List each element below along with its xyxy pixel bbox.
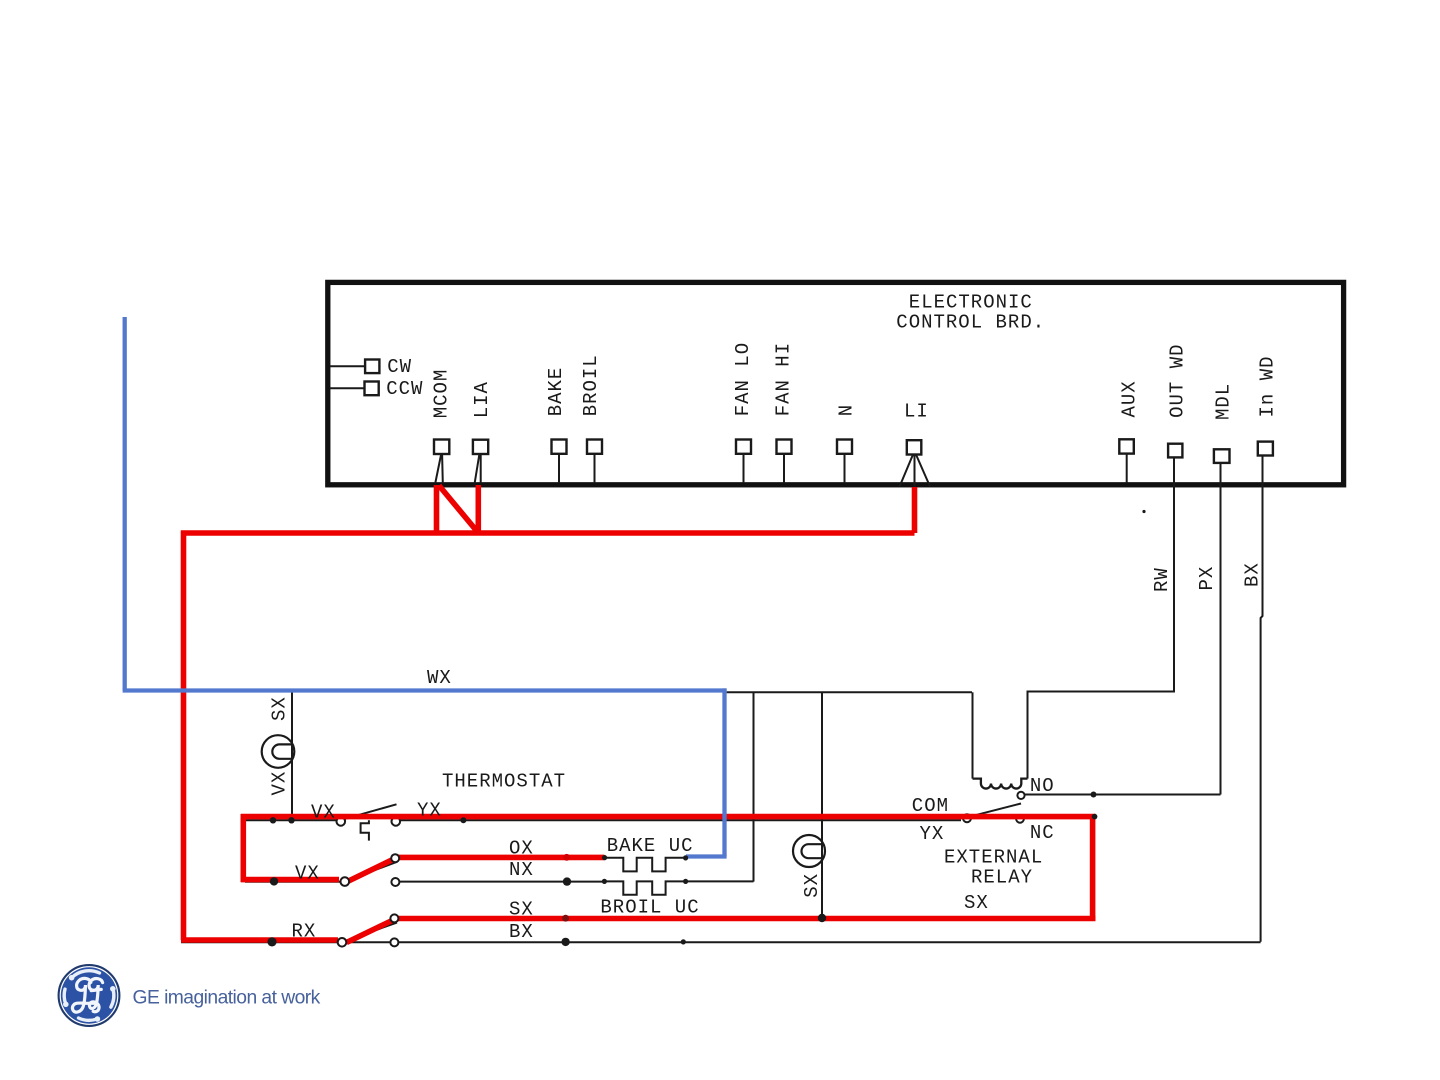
svg-text:MDL: MDL xyxy=(1213,383,1235,420)
terminal BAKE square xyxy=(552,440,567,454)
svg-text:SX: SX xyxy=(509,899,534,921)
wire PX net: MDL down to NO line xyxy=(1220,463,1222,795)
node NO line junction xyxy=(1091,792,1097,798)
terminal In WD square xyxy=(1258,442,1273,456)
wire vertical to NX xyxy=(753,692,755,881)
contact circles under red xyxy=(337,814,1024,826)
red wire row2 left (VX) xyxy=(241,877,339,883)
red switch S3 blade xyxy=(347,918,397,942)
wire SX row line under red xyxy=(399,918,1093,920)
terminal CCW square xyxy=(365,382,379,396)
svg-text:GE imagination at work: GE imagination at work xyxy=(133,988,321,1009)
wire thermostat row1 YX line xyxy=(245,819,961,821)
svg-text:RW: RW xyxy=(1151,567,1173,592)
svg-text:VX: VX xyxy=(295,863,320,885)
svg-text:BAKE UC: BAKE UC xyxy=(607,835,694,857)
svg-text:LI: LI xyxy=(904,400,929,422)
terminal CW square xyxy=(365,360,379,374)
svg-text:EXTERNAL: EXTERNAL xyxy=(944,847,1043,869)
node red box corner xyxy=(1092,814,1098,820)
wire MCOM leads xyxy=(435,454,443,484)
terminal LI square xyxy=(907,440,922,454)
terminal OUT WD square xyxy=(1168,444,1182,458)
node BX small xyxy=(681,939,686,944)
svg-text:NC: NC xyxy=(1030,822,1055,844)
node OX red junction xyxy=(563,854,570,861)
blue wire horizontal WX xyxy=(123,688,727,692)
electronic control board box xyxy=(328,282,1344,484)
node stray speck xyxy=(1142,510,1145,513)
node BAKE UC left xyxy=(602,855,607,860)
contact S1 left xyxy=(337,817,346,826)
wire LI fork leads xyxy=(900,455,930,488)
terminal N square xyxy=(837,440,852,454)
contact S1 right xyxy=(392,817,401,826)
svg-text:SX: SX xyxy=(801,873,823,898)
red wire left vertical xyxy=(181,531,187,941)
contact S2 NX throw xyxy=(391,878,399,886)
red wire OX row xyxy=(395,855,604,861)
terminal AUX square xyxy=(1119,439,1134,453)
red wire LIA drop xyxy=(475,485,481,536)
wire RW net: OUT WD down, left, coil right leg xyxy=(1028,457,1175,778)
wire FAN HI lead xyxy=(783,454,785,483)
contact S3 SX throw xyxy=(390,914,398,922)
wire WX horizontal xyxy=(727,691,972,693)
svg-text:BROIL: BROIL xyxy=(580,354,602,416)
terminal BROIL square xyxy=(587,440,602,454)
wire CW stub xyxy=(330,365,365,367)
heater BROIL UC element xyxy=(604,881,685,894)
svg-text:In WD: In WD xyxy=(1257,355,1279,417)
node row1 dot b (lamp drop) xyxy=(288,817,294,823)
BLUE wire overlay xyxy=(123,317,727,857)
svg-text:VX: VX xyxy=(269,771,291,796)
wire NO contact line to PX xyxy=(1025,794,1221,796)
contact relay COM xyxy=(963,814,971,822)
blue wire vertical left xyxy=(123,317,127,691)
svg-text:N: N xyxy=(836,404,858,416)
blue wire vertical down xyxy=(722,688,726,856)
wire NX line xyxy=(400,880,754,882)
thermostat S1 actuator bracket xyxy=(361,820,369,840)
svg-text:ELECTRONIC: ELECTRONIC xyxy=(909,292,1033,314)
red junction dots xyxy=(562,854,570,922)
wire vertical through SX lamp xyxy=(821,692,823,917)
terminal FAN HI square xyxy=(777,440,792,454)
RED wire overlays xyxy=(181,485,1096,943)
svg-text:VX: VX xyxy=(311,802,336,824)
switch S1 blade (thermostat VX-YX) xyxy=(345,804,397,819)
wire SX lamp drop: left lamp vertical xyxy=(291,691,293,821)
svg-text:YX: YX xyxy=(417,800,442,822)
svg-text:SX: SX xyxy=(269,696,291,721)
wire BX bottom line xyxy=(181,941,1261,943)
svg-text:LIA: LIA xyxy=(471,381,493,418)
relay coil L1 xyxy=(973,779,1028,789)
red wire MCOM drop xyxy=(434,485,440,536)
wire CCW stub xyxy=(330,387,364,389)
svg-text:YX: YX xyxy=(920,823,945,845)
wire BAKE lead xyxy=(558,454,560,483)
switch S2 blade black (VX to OX/NX) xyxy=(347,862,398,881)
node SX dark junction xyxy=(562,915,569,922)
wire AUX lead xyxy=(1126,454,1128,483)
svg-text:BAKE: BAKE xyxy=(545,367,567,417)
contact S3 common xyxy=(338,938,347,947)
svg-text:CW: CW xyxy=(387,356,412,378)
red wire top horizontal (L1 run) xyxy=(181,530,915,536)
contact S2 common xyxy=(341,877,350,886)
red highlight box right xyxy=(1090,814,1096,921)
heater BAKE UC element xyxy=(604,858,685,872)
node row2 dot xyxy=(270,877,278,885)
node BROIL UC right xyxy=(683,879,688,884)
wire FAN LO lead xyxy=(743,454,745,483)
wire BROIL lead xyxy=(594,454,596,483)
svg-text:AUX: AUX xyxy=(1119,380,1141,417)
svg-text:BROIL UC: BROIL UC xyxy=(600,897,699,919)
red wire SX row xyxy=(394,916,1095,922)
svg-text:CCW: CCW xyxy=(386,378,423,400)
svg-text:BX: BX xyxy=(509,921,534,943)
contact S3 BX throw xyxy=(390,938,398,946)
svg-text:FAN HI: FAN HI xyxy=(773,342,795,416)
svg-text:WX: WX xyxy=(427,667,452,689)
wire BX net: In WD down with jog, to bottom line xyxy=(1261,456,1263,942)
contact circles xyxy=(338,792,1025,947)
svg-text:SX: SX xyxy=(964,892,989,914)
red switch S2 blade xyxy=(347,858,397,882)
contact relay NC xyxy=(1016,815,1024,823)
node row3 dot xyxy=(267,937,276,946)
svg-text:FAN LO: FAN LO xyxy=(732,342,754,416)
terminal FAN LO square xyxy=(736,440,751,454)
contact relay NO xyxy=(1017,792,1024,799)
node BROIL UC left xyxy=(602,879,607,884)
node NX junction xyxy=(563,877,571,885)
wire thermostat row2 VX line xyxy=(245,881,340,883)
wire N lead xyxy=(844,454,846,483)
blue wire stub to BAKE UC xyxy=(686,854,727,858)
relay blade COM to NO xyxy=(969,804,1021,817)
svg-text:THERMOSTAT: THERMOSTAT xyxy=(442,771,566,793)
GE monogram logo xyxy=(59,965,120,1026)
svg-text:NX: NX xyxy=(509,859,534,881)
wire coil left leg xyxy=(972,692,974,778)
red wire diagonal MCOM-LIA xyxy=(439,486,478,533)
switch S3 blade black (RX) xyxy=(344,923,397,942)
svg-text:OX: OX xyxy=(509,838,534,860)
lamp DS2 (oven lamp SX right) xyxy=(793,835,825,867)
red wire LI drop xyxy=(912,487,918,533)
contact S2 OX throw xyxy=(391,854,399,862)
node BAKE UC right (blue joint) xyxy=(683,855,688,860)
svg-text:PX: PX xyxy=(1196,566,1218,591)
svg-text:CONTROL BRD.: CONTROL BRD. xyxy=(896,312,1045,334)
svg-text:BX: BX xyxy=(1242,562,1264,587)
node row1 dot c xyxy=(460,817,466,823)
svg-text:NO: NO xyxy=(1030,775,1055,797)
svg-text:OUT WD: OUT WD xyxy=(1167,343,1189,417)
svg-text:RX: RX xyxy=(292,921,317,943)
lamp DS1 (oven lamp SX/VX) xyxy=(262,735,295,768)
node row1 dot a xyxy=(270,817,276,823)
svg-text:COM: COM xyxy=(912,795,949,817)
node SX lamp junction xyxy=(818,914,826,922)
red highlight box top (YX row) xyxy=(241,814,1096,820)
terminal MCOM square xyxy=(434,440,449,455)
node BX junction xyxy=(561,938,569,946)
terminal MDL square xyxy=(1214,449,1230,463)
terminal LIA square xyxy=(473,440,488,454)
wire LIA leads xyxy=(475,454,481,484)
svg-text:MCOM: MCOM xyxy=(431,369,453,419)
red wire RX bottom xyxy=(181,937,338,943)
junction dots xyxy=(267,510,1145,947)
svg-text:RELAY: RELAY xyxy=(971,866,1033,888)
red highlight box left xyxy=(241,814,247,882)
